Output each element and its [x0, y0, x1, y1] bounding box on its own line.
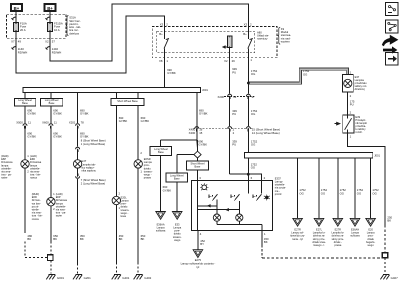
svg-text:15: 15 [199, 131, 203, 135]
svg-text:E37: E37 [355, 75, 360, 79]
svg-text:wego: wego [174, 239, 181, 242]
svg-text:sufitowa: sufitowa [156, 229, 166, 233]
svg-text:11: 11 [54, 121, 57, 125]
svg-text:57: 57 [52, 40, 56, 44]
svg-text:BK: BK [264, 240, 268, 244]
svg-text:działu: działu [144, 166, 151, 170]
svg-text:lica roz-: lica roz- [69, 28, 79, 32]
svg-text:słony prze-: słony prze- [313, 237, 326, 241]
svg-text:B+: B+ [14, 6, 20, 11]
svg-text:tył: tył [197, 265, 200, 269]
svg-text:E36AH: E36AH [351, 228, 359, 232]
svg-text:Long Wheel: Long Wheel [154, 147, 168, 151]
svg-text:J001: J001 [202, 88, 208, 92]
svg-text:Lampa: Lampa [173, 226, 181, 230]
svg-text:Lampka łu-: Lampka łu- [313, 231, 326, 235]
svg-text:RD/WH: RD/WH [52, 50, 61, 54]
svg-text:nia wnę-: nia wnę- [1, 170, 11, 174]
svg-text:pa oś-: pa oś- [32, 204, 39, 208]
svg-text:Lampa: Lampa [144, 160, 152, 164]
svg-text:62: 62 [233, 95, 237, 99]
svg-text:Lampa: Lampa [121, 199, 129, 203]
svg-text:sażer: sażer [56, 214, 62, 218]
svg-text:towaro-: towaro- [144, 169, 153, 173]
svg-text:Lampa: Lampa [157, 226, 165, 230]
svg-text:Lampka tab-: Lampka tab- [81, 162, 96, 166]
svg-text:słony prze-: słony prze- [332, 237, 345, 241]
svg-text:E337: E337 [275, 176, 282, 180]
svg-text:nia -: nia - [275, 189, 280, 193]
svg-text:29: 29 [232, 59, 236, 63]
svg-text:dzielna za-: dzielna za- [313, 234, 325, 238]
svg-text:OG: OG [372, 191, 376, 195]
svg-text:GY/BK: GY/BK [141, 119, 150, 123]
svg-text:BY: BY [200, 242, 204, 246]
svg-text:OG: OG [251, 112, 255, 116]
svg-text:GY/BK: GY/BK [167, 71, 176, 75]
svg-text:G402: G402 [144, 276, 151, 280]
svg-text:Short Wheel Base: Short Wheel Base [117, 99, 138, 103]
svg-text:oświetle-: oświetle- [56, 204, 66, 208]
svg-text:G001: G001 [57, 276, 64, 280]
svg-text:E6SR: E6SR [144, 157, 151, 161]
svg-text:OG: OG [340, 191, 344, 195]
svg-text:dzielczej: dzielczej [355, 87, 365, 91]
svg-text:X400: X400 [189, 131, 196, 135]
svg-text:X8: X8 [159, 59, 163, 63]
svg-text:E275: E275 [195, 258, 202, 262]
svg-text:Moduł: Moduł [281, 30, 289, 34]
svg-text:Long Wheel: Long Wheel [170, 174, 184, 178]
svg-text:RD/WH: RD/WH [18, 50, 27, 54]
svg-text:Lampa: Lampa [367, 231, 375, 235]
svg-text:Long Wheel: Long Wheel [18, 98, 32, 102]
svg-text:dzielna za-: dzielna za- [332, 234, 344, 238]
svg-text:Base: Base [195, 165, 201, 169]
svg-text:1 (Long Wheel Base): 1 (Long Wheel Base) [81, 142, 106, 146]
svg-text:BK: BK [119, 237, 123, 241]
svg-text:Base: Base [49, 101, 55, 105]
svg-text:X2: X2 [224, 59, 228, 63]
svg-text:E27R: E27R [335, 228, 342, 232]
svg-text:BK: BK [27, 237, 31, 241]
svg-text:G201: G201 [84, 276, 91, 280]
svg-text:towaro-: towaro- [121, 208, 130, 212]
svg-text:przedziału: przedziału [355, 81, 367, 85]
svg-text:E20: E20 [368, 228, 373, 232]
svg-text:łu tablicy: łu tablicy [355, 127, 366, 131]
svg-text:7 (Short Wheel Base): 7 (Short Wheel Base) [81, 178, 106, 182]
svg-text:przedzia-: przedzia- [355, 124, 366, 128]
svg-text:rozdz.: rozdz. [355, 130, 362, 134]
svg-text:78: 78 [81, 121, 85, 125]
svg-text:E39: E39 [355, 115, 360, 119]
svg-text:tania - tył: tania - tył [292, 237, 303, 241]
svg-text:E27L: E27L [316, 228, 323, 232]
svg-text:(LHD): (LHD) [56, 192, 63, 196]
svg-text:oświetle-: oświetle- [1, 166, 11, 170]
svg-text:Przełącz-: Przełącz- [355, 118, 366, 122]
svg-text:oświetle-: oświetle- [30, 166, 40, 170]
svg-text:działu: działu [121, 205, 128, 209]
svg-text:przód: przód [275, 192, 282, 196]
svg-text:49: 49 [18, 40, 22, 44]
svg-text:nia wnę-: nia wnę- [32, 211, 42, 215]
svg-text:Skrz bez-: Skrz bez- [69, 19, 80, 23]
svg-text:prawa: prawa [334, 243, 342, 247]
svg-text:nia czyta-: nia czyta- [275, 186, 286, 190]
svg-text:G407: G407 [391, 276, 398, 280]
svg-text:Base: Base [22, 101, 28, 105]
svg-text:Drzwiowa: Drzwiowa [56, 198, 68, 202]
svg-text:B+: B+ [47, 6, 53, 11]
svg-text:PU: PU [232, 112, 236, 116]
svg-text:X2: X2 [45, 40, 49, 44]
svg-text:Układ ste-: Układ ste- [257, 34, 269, 38]
svg-text:lampa: lampa [1, 163, 9, 167]
svg-text:BK: BK [80, 237, 84, 241]
svg-text:sażer: sażer [1, 176, 7, 180]
svg-text:Lampka: Lampka [355, 78, 365, 82]
svg-text:(LHD): (LHD) [30, 154, 37, 158]
svg-text:rowca: rowca [30, 176, 37, 180]
svg-text:20 A: 20 A [20, 28, 26, 32]
svg-text:Short Wheel: Short Wheel [190, 162, 204, 166]
svg-text:A80: A80 [257, 30, 262, 34]
svg-text:B+: B+ [159, 32, 163, 36]
svg-text:woziem: woziem [281, 39, 291, 43]
svg-text:B+: B+ [243, 32, 247, 36]
svg-text:BK: BK [141, 237, 145, 241]
svg-text:E36AA: E36AA [157, 222, 165, 226]
svg-text:27: 27 [252, 95, 256, 99]
svg-text:K9: K9 [281, 27, 285, 31]
svg-text:GY/BK: GY/BK [53, 135, 62, 139]
svg-text:OG: OG [303, 72, 307, 76]
svg-text:nik lampki: nik lampki [355, 121, 367, 125]
svg-text:bagażo-: bagażo- [366, 240, 375, 244]
svg-text:lampa: lampa [56, 201, 64, 205]
svg-text:wego -: wego - [121, 212, 129, 215]
svg-text:E6P: E6P [56, 195, 61, 199]
svg-text:pieczni-: pieczni- [69, 22, 78, 26]
svg-text:Lampy sufitowe/do czytania -: Lampy sufitowe/do czytania - [181, 262, 216, 266]
svg-text:towaro-: towaro- [173, 235, 182, 239]
svg-text:wego: wego [368, 244, 375, 247]
svg-text:Base: Base [158, 150, 164, 154]
svg-text:trza - pa-: trza - pa- [1, 173, 12, 177]
svg-text:Long Wheel: Long Wheel [45, 98, 59, 102]
svg-text:OG: OG [251, 166, 255, 170]
svg-text:BK: BK [53, 237, 57, 241]
svg-text:PU: PU [232, 70, 236, 74]
svg-text:nia wnę-: nia wnę- [56, 208, 66, 212]
svg-text:rowca: rowca [32, 217, 39, 221]
svg-text:działu -: działu - [334, 240, 342, 244]
svg-text:nika zapłonu: nika zapłonu [81, 169, 96, 173]
svg-text:11: 11 [28, 121, 31, 125]
svg-text:prze-: prze- [144, 163, 150, 167]
svg-text:OG: OG [251, 72, 255, 76]
svg-text:wa lam-: wa lam- [32, 201, 41, 205]
svg-text:GY/BK: GY/BK [119, 119, 128, 123]
svg-text:GY/BK: GY/BK [198, 143, 207, 147]
svg-text:2 (Long Wheel Base): 2 (Long Wheel Base) [81, 181, 106, 185]
svg-text:Lampka łu-: Lampka łu- [331, 231, 344, 235]
svg-text:Lampy suf-: Lampy suf- [291, 231, 304, 235]
svg-text:Lampa: Lampa [351, 231, 359, 235]
svg-text:GY/BK: GY/BK [163, 188, 172, 192]
svg-text:działu: działu [367, 237, 374, 241]
svg-text:(RHD): (RHD) [1, 154, 8, 158]
svg-text:X201: X201 [69, 121, 76, 125]
svg-text:E27R: E27R [294, 228, 301, 232]
svg-text:Drzwiowa: Drzwiowa [30, 160, 42, 164]
svg-text:GY/BK: GY/BK [80, 112, 89, 116]
svg-text:sterowa-: sterowa- [281, 33, 291, 37]
svg-text:8 (Short Wheel Base): 8 (Short Wheel Base) [81, 139, 106, 143]
svg-text:licy wyłącz-: licy wyłącz- [81, 165, 94, 169]
svg-text:(RHD): (RHD) [32, 192, 39, 196]
svg-text:S31A: S31A [69, 16, 76, 20]
svg-text:prawa: prawa [144, 176, 152, 180]
svg-text:Drzwiowa: Drzwiowa [1, 160, 13, 164]
svg-text:G401: G401 [122, 276, 129, 280]
svg-text:tablicy roz-: tablicy roz- [355, 84, 368, 88]
svg-text:oświetle-: oświetle- [275, 183, 285, 187]
svg-text:OG: OG [357, 191, 361, 195]
svg-text:10 A: 10 A [54, 28, 60, 32]
svg-text:GY/BK: GY/BK [80, 135, 89, 139]
svg-text:GY/BK: GY/BK [199, 112, 208, 116]
svg-text:itowe/do czy-: itowe/do czy- [290, 234, 305, 238]
svg-text:GY/BK: GY/BK [27, 135, 36, 139]
svg-text:E6D: E6D [30, 157, 35, 161]
svg-text:dzielcza: dzielcza [69, 31, 79, 35]
svg-text:rowego - l.: rowego - l. [313, 243, 325, 247]
svg-text:X7: X7 [11, 40, 15, 44]
svg-text:E4T: E4T [81, 159, 86, 163]
svg-text:trza - kie-: trza - kie- [32, 214, 43, 218]
svg-text:PU: PU [232, 143, 236, 147]
svg-text:OG: OG [321, 191, 325, 195]
svg-text:X500: X500 [16, 121, 23, 125]
svg-text:trza - kie-: trza - kie- [30, 173, 41, 177]
svg-text:E6D: E6D [32, 195, 37, 199]
svg-text:X600: X600 [42, 121, 49, 125]
svg-text:GY/BK: GY/BK [53, 112, 62, 116]
svg-text:Lampy: Lampy [275, 180, 283, 184]
svg-text:trza - pa-: trza - pa- [56, 211, 67, 215]
svg-text:lampa: lampa [30, 163, 38, 167]
svg-text:nia wnę-: nia wnę- [30, 170, 40, 174]
svg-text:przo-: przo- [368, 234, 374, 238]
svg-text:sufitowa: sufitowa [350, 234, 360, 238]
svg-text:OG: OG [299, 191, 303, 195]
svg-text:14 (Long Wheel Base): 14 (Long Wheel Base) [252, 131, 280, 135]
svg-text:działu towa-: działu towa- [312, 240, 326, 244]
svg-text:działu: działu [174, 232, 181, 236]
svg-text:E6P: E6P [1, 157, 6, 161]
svg-text:GY/BK: GY/BK [27, 112, 36, 116]
svg-text:prze-: prze- [174, 229, 180, 233]
svg-text:E20L: E20L [121, 195, 128, 199]
svg-text:PU: PU [350, 103, 354, 107]
svg-text:J001: J001 [374, 154, 380, 158]
svg-text:lewa: lewa [121, 214, 127, 218]
svg-text:wietle-: wietle- [32, 208, 40, 212]
svg-text:ków - tab-: ków - tab- [69, 25, 81, 29]
svg-text:OG: OG [251, 143, 255, 147]
svg-text:wego -: wego - [144, 174, 152, 177]
svg-text:X3: X3 [244, 23, 248, 27]
svg-text:rowniczy: rowniczy [257, 37, 268, 41]
svg-text:prze-: prze- [121, 202, 127, 206]
svg-text:Base: Base [174, 177, 180, 181]
svg-text:Drzwio-: Drzwio- [32, 198, 41, 202]
svg-text:X3: X3 [160, 23, 164, 27]
svg-text:E33: E33 [175, 222, 180, 226]
svg-text:X200: X200 [217, 95, 224, 99]
svg-text:BK: BK [387, 219, 391, 223]
svg-text:nia nad-: nia nad- [281, 36, 291, 40]
